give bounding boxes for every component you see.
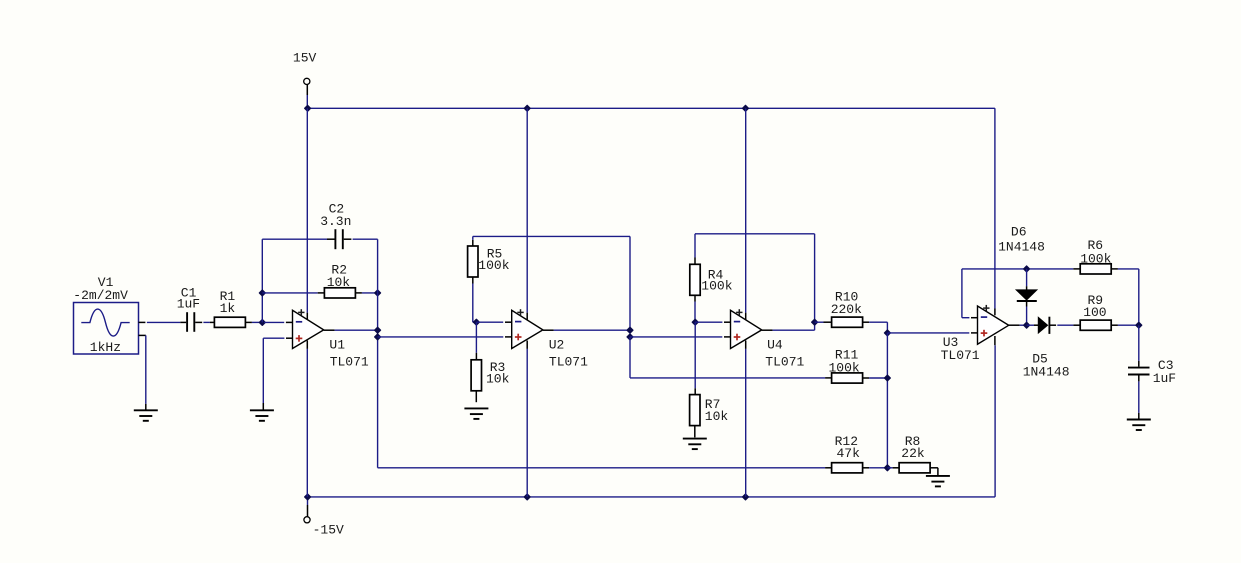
node A junction dot (R1 / U1 inverting)	[259, 319, 265, 325]
svg-text:10k: 10k	[486, 371, 510, 386]
svg-text:1kHz: 1kHz	[90, 340, 121, 355]
wire node B down to R3	[475, 322, 477, 353]
wire bottom bus right corner up to U3	[994, 345, 996, 497]
svg-text:3.3n: 3.3n	[320, 214, 351, 229]
svg-text:10k: 10k	[327, 275, 351, 290]
junction dot R12/R8	[884, 465, 890, 471]
svg-text:U2: U2	[549, 337, 565, 352]
wire top bus right corner down to U3	[994, 108, 996, 308]
capacitor C1	[187, 312, 194, 332]
wire R4 top pin to U4 feedback loop	[694, 258, 696, 265]
wire U3 feedback loop (inverting input)	[962, 317, 970, 319]
wire R5 top pin to feedback loop	[472, 240, 474, 246]
wire R3 bottom pin	[475, 391, 477, 402]
svg-text:D6: D6	[1011, 224, 1027, 239]
resistor R3	[471, 360, 481, 391]
wire U3 negative supply pin	[994, 336, 996, 345]
svg-text:1N4148: 1N4148	[1023, 364, 1070, 379]
svg-text:10k: 10k	[705, 409, 729, 424]
source V1 box	[74, 303, 139, 355]
resistor R2	[324, 288, 355, 298]
wire U3 positive supply pin	[994, 309, 996, 316]
junction dot D6/R6 node	[1024, 266, 1030, 272]
wire R12 right pin	[863, 467, 870, 469]
ground R8	[926, 476, 950, 487]
resistor R1	[214, 317, 245, 327]
wire U4 feedback loop top	[695, 233, 815, 235]
wire D6 anode	[1026, 269, 1028, 286]
node D junction dot (R10/U3+)	[884, 330, 890, 336]
wire U2 negative supply pin	[526, 341, 528, 349]
wire node B to U2 inverting input	[476, 321, 503, 323]
wire U4 output	[762, 329, 773, 331]
capacitor C2	[335, 229, 342, 249]
wire node A up to feedback	[261, 239, 263, 322]
wire to R8 left pin	[887, 467, 892, 469]
wire U1 stage to U2 non-inverting input	[378, 336, 504, 338]
wire U1 output	[324, 329, 335, 331]
svg-text:TL071: TL071	[765, 354, 804, 369]
wire node D to U3 non-inverting input	[887, 332, 969, 334]
svg-text:100k: 100k	[829, 360, 860, 375]
node B junction dot (R5/R3/U2 inverting)	[473, 319, 479, 325]
wire U2 positive supply pin	[526, 108, 528, 312]
wire R1 to node A	[245, 321, 252, 323]
wire D6 cathode to U3 output	[1026, 302, 1028, 307]
wire V1 output pin	[139, 321, 146, 323]
wire U2 output node down to R11	[629, 337, 631, 378]
wire R4 bottom pin to node C	[694, 295, 696, 301]
wire D6 node to R6 left pin	[1030, 268, 1074, 270]
wire U4 positive supply pin	[745, 108, 747, 312]
resistor R11	[832, 373, 863, 383]
op-amp U3	[978, 306, 1009, 344]
source V1 sine symbol	[81, 309, 129, 336]
junction dot U1 output	[375, 327, 381, 333]
wire U2 feedback loop top	[473, 235, 630, 237]
svg-text:1uF: 1uF	[177, 297, 200, 312]
wire U1 non-inverting input to ground	[286, 337, 293, 339]
wire node D down	[886, 333, 888, 468]
wire R5 bottom pin to node B	[472, 277, 474, 283]
wire feedback bottom from U1 node to R12	[378, 467, 825, 469]
resistor R12	[832, 463, 863, 473]
wire D5 cathode to R9	[1049, 324, 1056, 326]
wire node A to U1 inverting input	[264, 321, 284, 323]
svg-text:100k: 100k	[478, 258, 509, 273]
resistor R8	[899, 463, 930, 473]
resistor R6	[1080, 264, 1111, 274]
ground R3	[464, 408, 488, 419]
svg-text:U1: U1	[329, 337, 345, 352]
wire output node down to C3	[1138, 325, 1140, 361]
svg-text:100: 100	[1083, 305, 1106, 320]
svg-text:1uF: 1uF	[1153, 371, 1176, 386]
wire node C to U4 inverting input	[695, 321, 722, 323]
wire to R2 left pin	[262, 292, 317, 294]
ground R7	[683, 439, 707, 450]
svg-text:22k: 22k	[901, 446, 925, 461]
junction dot U4 output / R10	[812, 319, 818, 325]
op-amp U2	[512, 310, 543, 348]
op-amp U1	[293, 310, 324, 348]
wire D5 anode	[1027, 324, 1034, 326]
diode D5 1N4148	[1038, 317, 1047, 333]
svg-text:TL071: TL071	[941, 348, 980, 363]
svg-text:1N4148: 1N4148	[998, 239, 1045, 254]
wire R10 right pin to node D	[863, 321, 870, 323]
wire C2 right pin	[344, 238, 352, 240]
junction dot U2 output	[627, 327, 633, 333]
wire U2 output	[543, 329, 554, 331]
wire C3 bottom pin to ground	[1138, 376, 1140, 382]
wire to C2 left pin	[262, 238, 327, 240]
junction bottom bus U1	[305, 494, 311, 500]
svg-text:1k: 1k	[220, 301, 236, 316]
junction dot stage2 to stage3	[627, 334, 633, 340]
svg-text:15V: 15V	[293, 50, 317, 65]
junction bottom bus U4	[743, 494, 749, 500]
wire U3 output	[1009, 324, 1020, 326]
junction dot R2 left	[259, 290, 265, 296]
wire terminal to top bus	[306, 85, 308, 95]
wire V1 ground pin	[139, 334, 146, 336]
junction dot U3 output / D5 / D6	[1024, 322, 1030, 328]
svg-text:100k: 100k	[1080, 251, 1111, 266]
wire U1 positive supply pin	[306, 108, 308, 312]
node C junction dot (R4/R7/U4 inverting)	[692, 319, 698, 325]
terminal circle +15V	[304, 78, 310, 84]
junction dot R2 right	[375, 290, 381, 296]
wire U2 stage to U4 non-inverting input	[630, 336, 722, 338]
svg-text:TL071: TL071	[549, 354, 588, 369]
ground V1	[134, 410, 158, 421]
junction top bus U4	[743, 105, 749, 111]
wire R8 right pin to ground	[930, 467, 938, 469]
wire R7 bottom pin	[694, 426, 696, 438]
wire C1 to R1	[195, 321, 202, 323]
wire R2 right pin	[355, 292, 362, 294]
resistor R4	[690, 264, 700, 295]
svg-text:-15V: -15V	[313, 523, 344, 538]
capacitor C3	[1128, 368, 1150, 375]
bottom -15V bus wire	[308, 496, 996, 498]
junction dot R9/R6/C3	[1136, 322, 1142, 328]
svg-text:U4: U4	[767, 337, 783, 352]
wire terminal to bottom bus	[307, 505, 309, 517]
svg-text:220k: 220k	[831, 302, 862, 317]
op-amp U4	[731, 310, 762, 348]
wire U1 negative supply pin	[306, 341, 308, 349]
svg-text:47k: 47k	[837, 446, 861, 461]
junction top bus U1	[305, 105, 311, 111]
svg-text:TL071: TL071	[330, 354, 369, 369]
top +15V bus wire	[308, 107, 995, 109]
svg-text:100k: 100k	[701, 279, 732, 294]
junction dot R11 right	[884, 375, 890, 381]
ground U1 non-inverting	[250, 410, 274, 421]
wire R9 right pin	[1111, 324, 1118, 326]
diode D6 1N4148	[1016, 290, 1037, 300]
wire node C down to R7	[694, 322, 696, 388]
resistor R7	[690, 395, 700, 426]
junction dot stage1 to stage2	[375, 334, 381, 340]
junction top bus U2	[524, 105, 530, 111]
wire U4 negative supply pin	[745, 341, 747, 349]
svg-text:-2m/2mV: -2m/2mV	[73, 288, 128, 303]
terminal circle -15V	[304, 517, 310, 523]
ground C3	[1127, 420, 1151, 431]
wire R11 right pin	[863, 377, 870, 379]
wire to R10 left pin	[815, 321, 824, 323]
resistor R5	[468, 246, 478, 277]
junction bottom bus U2	[524, 494, 530, 500]
resistor R9	[1080, 320, 1111, 330]
wire R6 right pin down to output node	[1111, 268, 1118, 270]
resistor R10	[832, 317, 863, 327]
wire feedback right vertical	[377, 239, 379, 468]
